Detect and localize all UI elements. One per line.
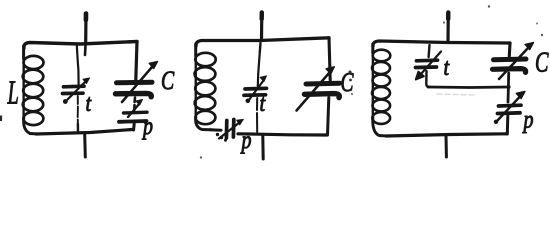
inductor L3 left vertical entry (371, 44, 374, 53)
wire: top stub external lead (446, 13, 449, 42)
svg-text:C: C (535, 47, 549, 78)
wire: bottom stub external lead (261, 136, 264, 159)
capacitor t1 arrow (66, 81, 86, 101)
wire: middle branch lower (t2 to bottom wire) (256, 98, 258, 132)
wire: coil tail into bottom wire (196, 117, 212, 130)
scan speckles (0, 116, 2, 122)
capacitor t3 arrow (head lower-left) (421, 52, 442, 75)
label t1 (86, 89, 92, 116)
label C2 (341, 68, 354, 98)
wire: right side upper (top corner down to C) (136, 42, 137, 81)
wire: middle branch lower (t to bottom wire) (77, 96, 79, 131)
inductor L3 coil loops (373, 50, 391, 62)
wire: bottom stub external lead (83, 134, 87, 157)
capacitor p3 top plate (499, 103, 522, 108)
label p1 (141, 112, 153, 140)
label C3 (535, 47, 549, 78)
wire: middle branch upper (to trimmer t2) (258, 52, 260, 86)
wire: bottom wire C3 (386, 134, 507, 136)
wire: left side line through coil 3 (372, 44, 375, 119)
svg-text:t: t (260, 89, 266, 116)
wire: right side upper (corner to C3) (508, 43, 512, 56)
wire: t3 branch down and corner (426, 71, 430, 87)
wire: coil tail into bottom wire (373, 117, 388, 136)
wire: junction tick below top wire (259, 43, 262, 52)
capacitor C2 bottom plate (curled right end) (305, 94, 340, 98)
capacitor p2 left plate (225, 121, 229, 139)
label p2 (240, 126, 252, 154)
wire: top wire C1 (24, 42, 137, 49)
inductor L1 left vertical entry (22, 46, 25, 59)
capacitor C1 arrow (122, 67, 152, 102)
capacitor C1 top plate (117, 80, 153, 86)
inductor L1 coil loops (24, 56, 44, 69)
capacitor p1 top plate (124, 110, 148, 114)
label p3 (522, 105, 534, 133)
wire: p3 to bottom corner (506, 116, 510, 134)
capacitor p1 bottom plate (119, 119, 147, 124)
svg-text:p: p (240, 126, 252, 154)
wire: inner horizontal wire (t3 to right side) (428, 86, 509, 89)
wire: left side line through coil 2 (194, 44, 197, 119)
svg-text:p: p (522, 105, 534, 133)
wire: segment C3 to junction (507, 73, 511, 102)
wire: top wire C2 (196, 38, 329, 46)
node: junction inner wire / right side (506, 85, 510, 89)
capacitor C3 bottom plate (curled right end) (493, 69, 526, 73)
wire: t3 branch from top wire (427, 45, 430, 57)
capacitor p3 bottom plate (498, 111, 521, 115)
capacitor p3 arrow (497, 97, 521, 122)
inductor L2 coil loops (195, 53, 215, 66)
wire: bottom wire C1 (36, 130, 132, 135)
capacitor C2 top plate (306, 81, 340, 87)
wire: bottom wire right segment (p2 to corner) (238, 134, 327, 135)
capacitor C3 arrow (499, 48, 528, 79)
svg-text:t: t (444, 53, 450, 80)
svg-text:p: p (141, 112, 153, 140)
capacitor C1 bottom plate (curled right end) (116, 93, 152, 96)
wire: top wire C3 (373, 41, 510, 46)
wire: left side line through coil 1 (22, 46, 25, 121)
label L (7, 74, 19, 112)
wire: bottom stub external lead (445, 135, 448, 157)
capacitor t3 bottom plate (416, 65, 437, 69)
capacitor t3 top plate (417, 58, 438, 62)
capacitor t2 top plate (245, 86, 267, 90)
wire: p1 to bottom corner (132, 124, 136, 131)
capacitor C3 top plate (494, 57, 527, 63)
svg-text:L: L (7, 74, 19, 112)
wire: coil tail into bottom wire (24, 118, 38, 134)
label t3 (444, 53, 450, 80)
label C1 (161, 65, 175, 94)
svg-text:t: t (86, 89, 92, 116)
label t2 (260, 89, 266, 116)
wire: middle branch upper (to trimmer t) (77, 45, 79, 84)
wire: right side lower (C2 to bottom corner) (328, 98, 329, 136)
capacitor p2 right plate (232, 120, 236, 138)
capacitor t2 bottom plate (244, 93, 266, 97)
wire: segment C1 to p1 (133, 98, 136, 111)
wire: junction tick below top wire (84, 45, 87, 55)
capacitor t2 arrow (249, 81, 264, 101)
wire: top stub external lead (260, 13, 263, 40)
capacitor t1 top plate (64, 84, 85, 88)
wire: top stub external lead (84, 14, 88, 42)
svg-text:C: C (161, 65, 175, 94)
capacitor t1 bottom plate (63, 91, 84, 95)
wire: right side upper (top corner to C2) (329, 38, 330, 80)
capacitor p2 arrow (219, 123, 240, 139)
inductor L2 left vertical entry (194, 44, 197, 56)
capacitor p1 arrow (128, 104, 140, 118)
wire: bottom wire left segment (coil to p2) (210, 128, 221, 131)
capacitor C2 arrow (297, 73, 330, 111)
